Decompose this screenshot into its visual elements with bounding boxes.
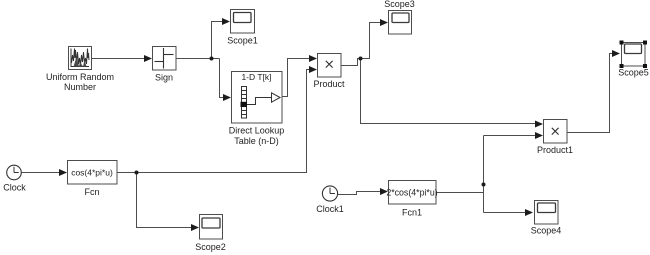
- svg-text:Scope5: Scope5: [618, 68, 649, 78]
- svg-text:Uniform Random: Uniform Random: [46, 72, 114, 82]
- svg-text:Scope1: Scope1: [227, 36, 258, 46]
- svg-text:2*cos(4*pi*u): 2*cos(4*pi*u): [386, 188, 437, 198]
- svg-text:Scope2: Scope2: [195, 242, 226, 252]
- svg-text:Scope3: Scope3: [384, 0, 415, 9]
- svg-text:Scope4: Scope4: [531, 225, 562, 235]
- svg-text:Sign: Sign: [155, 72, 173, 82]
- svg-text:cos(4*pi*u): cos(4*pi*u): [71, 168, 113, 178]
- svg-text:Table (n-D): Table (n-D): [234, 136, 279, 146]
- svg-text:Fcn: Fcn: [84, 187, 99, 197]
- svg-text:Product: Product: [313, 79, 345, 89]
- svg-text:Clock1: Clock1: [316, 204, 344, 214]
- svg-text:Number: Number: [64, 82, 96, 92]
- svg-text:1-D T[k]: 1-D T[k]: [241, 72, 271, 82]
- svg-text:Clock: Clock: [3, 182, 26, 192]
- svg-text:Direct Lookup: Direct Lookup: [229, 126, 285, 136]
- svg-text:Fcn1: Fcn1: [402, 208, 422, 218]
- svg-text:Product1: Product1: [537, 145, 573, 155]
